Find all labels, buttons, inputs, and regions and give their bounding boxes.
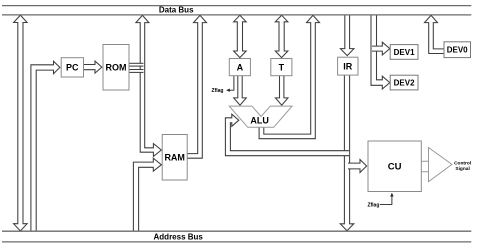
svg-text:ROM: ROM (106, 63, 127, 73)
wire: IR branch to CU (348, 160, 367, 173)
svg-text:T: T (279, 62, 285, 72)
op-amp-style ALU shape (229, 106, 292, 127)
svg-text:DEV1: DEV1 (394, 48, 415, 57)
svg-text:RAM: RAM (164, 153, 185, 163)
svg-text:Data Bus: Data Bus (159, 6, 194, 15)
wire: ALU output to data bus (259, 15, 319, 138)
device DEV0 (444, 42, 471, 58)
node: Zflag tap from A register (229, 76, 234, 90)
wire: data bus to address bus double arrow (14, 15, 28, 231)
svg-text:Address Bus: Address Bus (154, 232, 204, 241)
svg-text:CU: CU (388, 162, 402, 173)
register A (229, 59, 250, 76)
memory RAM (162, 135, 187, 181)
svg-text:ALU: ALU (250, 115, 269, 125)
wire: data bus to DEV2 (371, 15, 390, 89)
svg-text:Zflag: Zflag (212, 88, 224, 94)
svg-text:A: A (237, 62, 244, 72)
register IR (338, 57, 358, 75)
svg-text:PC: PC (66, 63, 79, 73)
svg-text:DEV2: DEV2 (394, 78, 415, 87)
wire: A to ALU (234, 76, 247, 105)
device DEV2 (390, 75, 418, 90)
wire: branch to DEV1 (372, 42, 390, 55)
data bus lines (2, 6, 471, 15)
wire: PC to ROM (84, 61, 102, 73)
memory ROM (103, 45, 129, 91)
control unit CU (368, 141, 421, 192)
wire: ROM lower output stub (129, 70, 144, 73)
wire: address bus to RAM (133, 158, 161, 231)
wire: ROM upper output stub (129, 63, 144, 66)
svg-text:Signal: Signal (455, 166, 469, 172)
wire: IR branch to ALU input (225, 114, 349, 156)
wire: data bus / ROM to RAM column (136, 15, 162, 156)
svg-text:DEV0: DEV0 (447, 46, 468, 55)
address bus lines (2, 231, 471, 242)
control signal output triangle (429, 148, 452, 182)
wire: T to ALU (275, 76, 288, 105)
node: Zflag input to CU (380, 196, 392, 204)
register T (271, 59, 292, 76)
device DEV1 (390, 45, 418, 60)
wire: data bus to IR (340, 15, 354, 55)
wire: DEV0 to data bus (425, 15, 444, 53)
wire: address bus to PC (31, 61, 60, 231)
wire: IR down to address bus (340, 75, 354, 231)
wire: data bus to A double arrow (234, 15, 247, 57)
wire: data bus to T double arrow (275, 15, 288, 57)
register PC (61, 58, 83, 77)
wire: RAM to data bus (187, 15, 207, 158)
svg-text:IR: IR (343, 61, 353, 71)
svg-text:Zflag: Zflag (367, 202, 379, 208)
svg-text:Control: Control (454, 160, 471, 166)
